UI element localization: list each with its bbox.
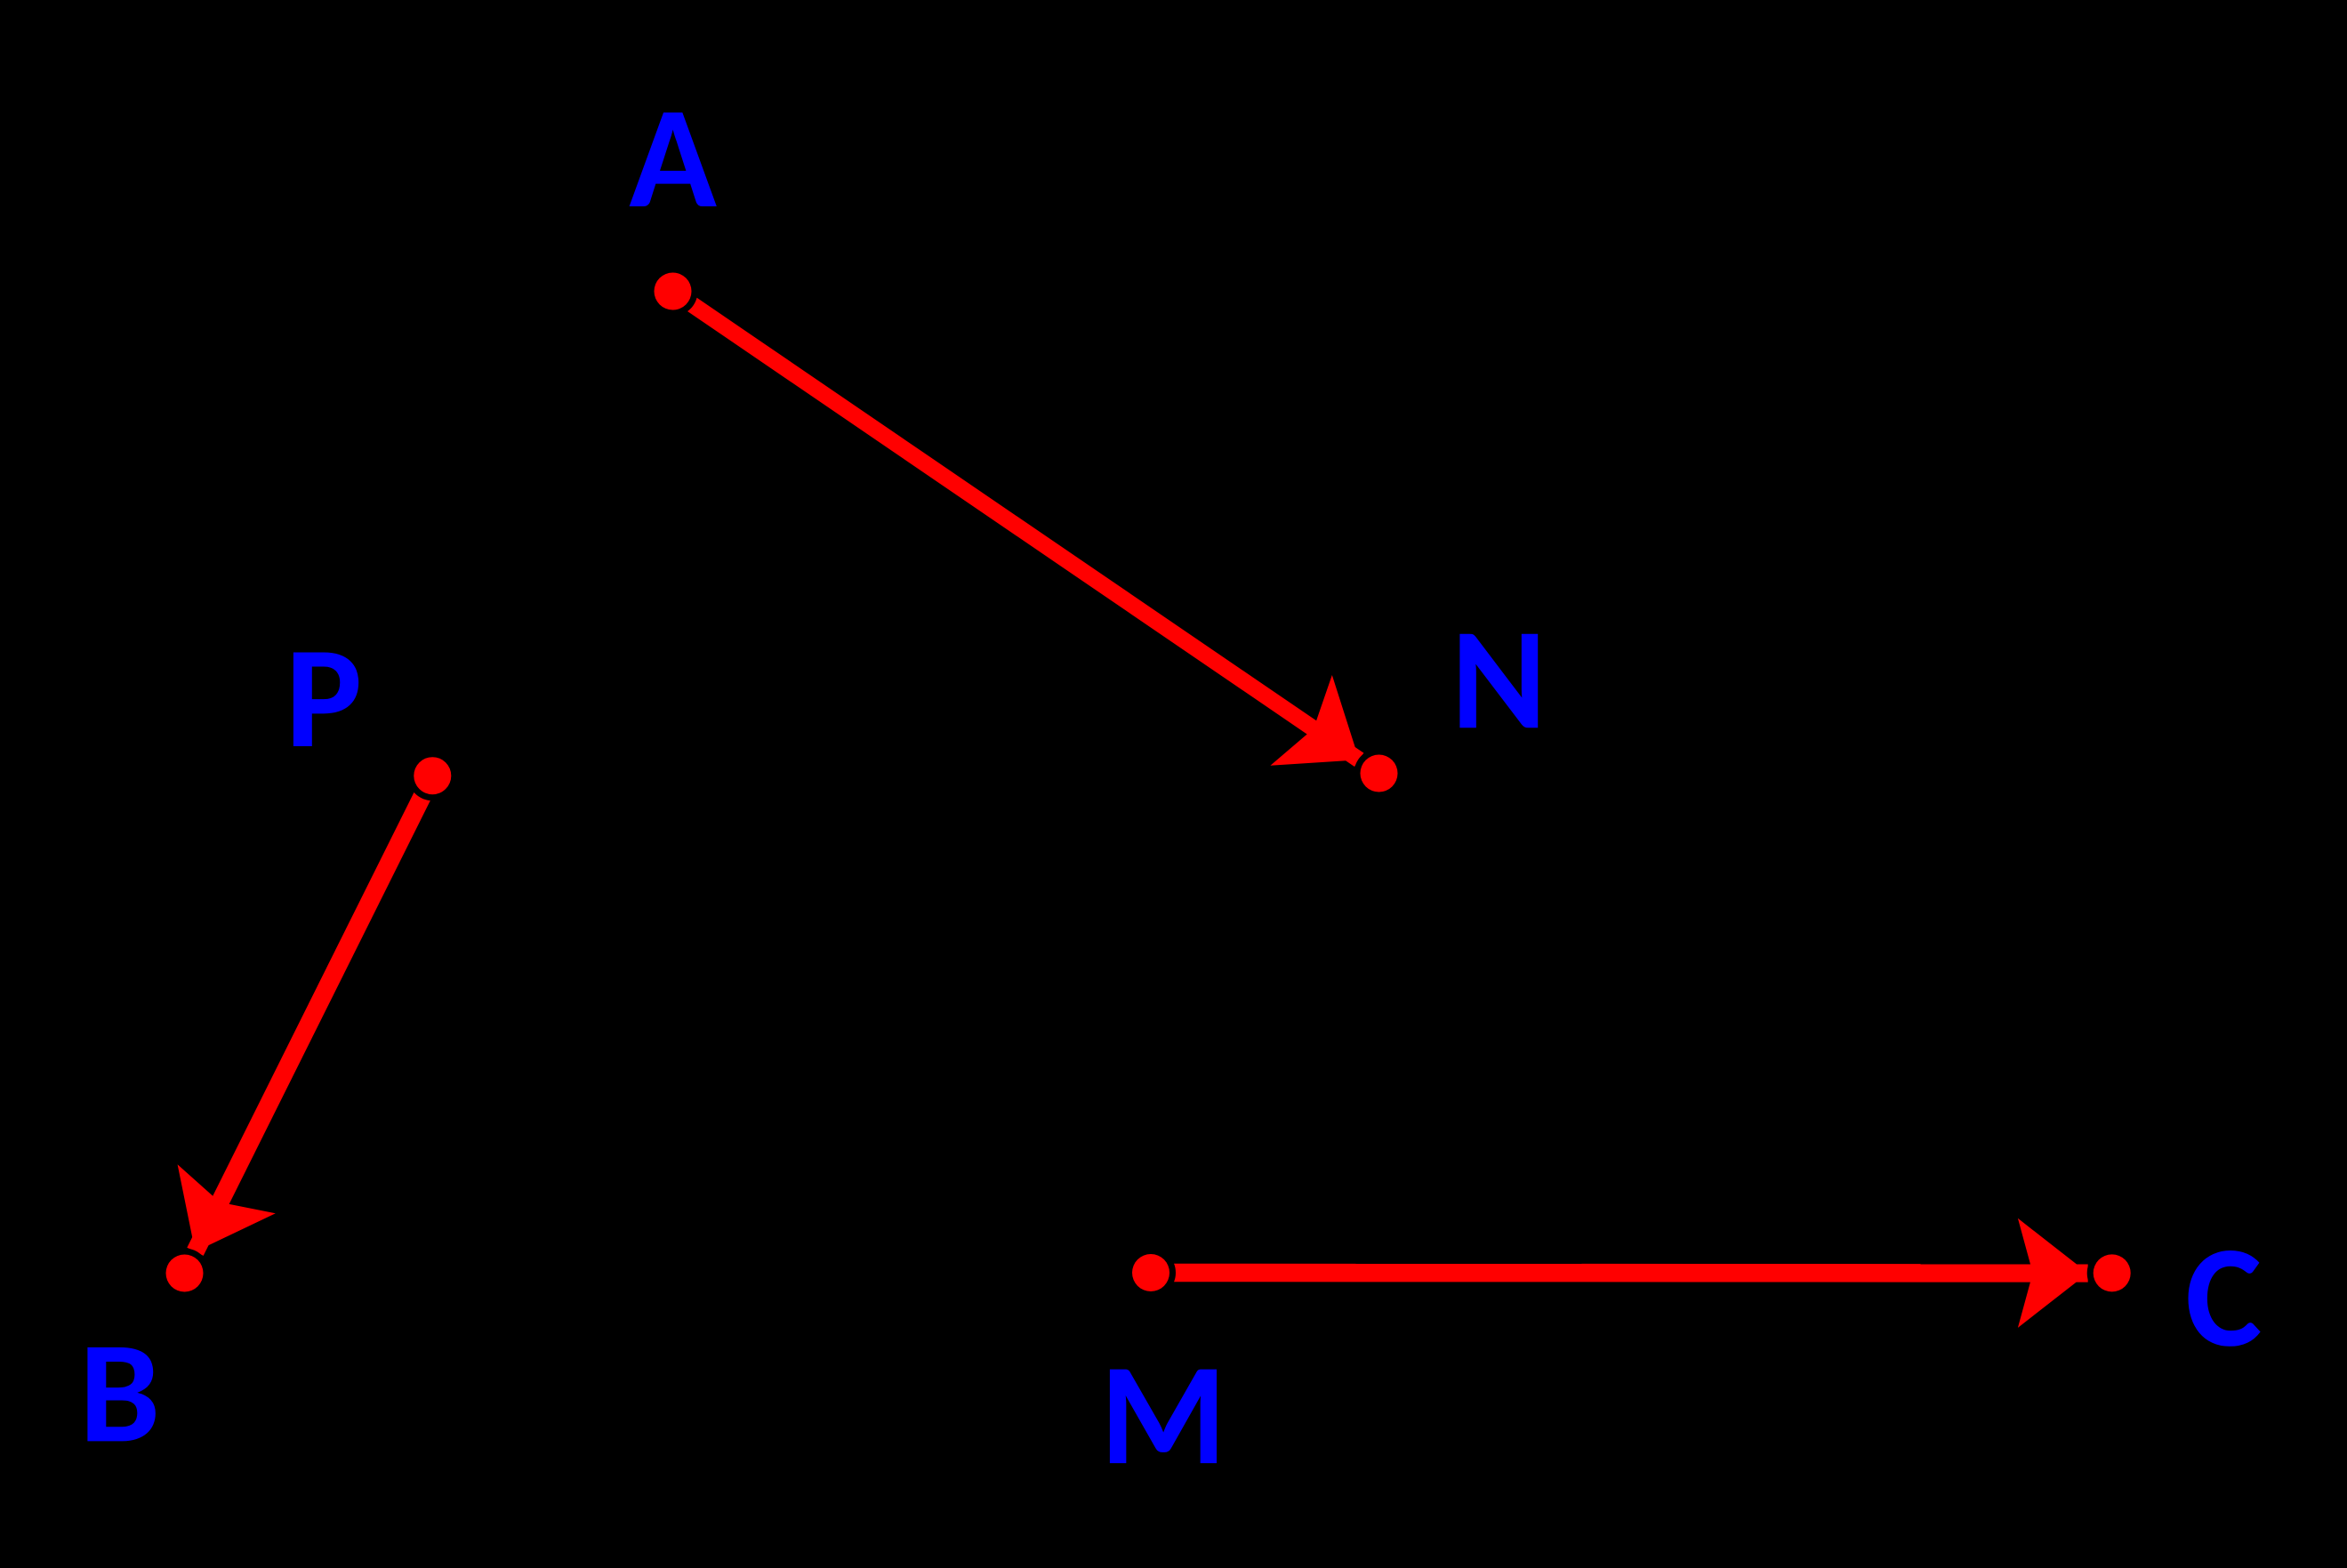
node label N xyxy=(1459,634,1538,728)
point A (red dot with black halo) xyxy=(648,267,698,317)
point N (red dot with black halo) xyxy=(1354,749,1404,799)
node label B xyxy=(87,1347,155,1442)
vector PB: arrowhead at B xyxy=(178,1164,276,1251)
point P (red dot with black halo) xyxy=(407,751,457,800)
node label A xyxy=(630,112,717,206)
vector MC: shaft wire xyxy=(1151,1264,2088,1283)
node label C xyxy=(2188,1250,2260,1347)
node label M xyxy=(1110,1370,1217,1464)
vector AN: arrowhead at N xyxy=(1270,675,1359,766)
point M (red dot with black halo) xyxy=(1126,1248,1176,1298)
vector AN: shaft wire xyxy=(673,292,1360,760)
point C (red dot with black halo) xyxy=(2087,1248,2137,1298)
vector MC: arrowhead at C xyxy=(2018,1218,2088,1328)
vector PB: shaft wire xyxy=(196,776,433,1251)
point B (red dot with black halo) xyxy=(160,1249,210,1299)
node label P xyxy=(293,652,358,746)
